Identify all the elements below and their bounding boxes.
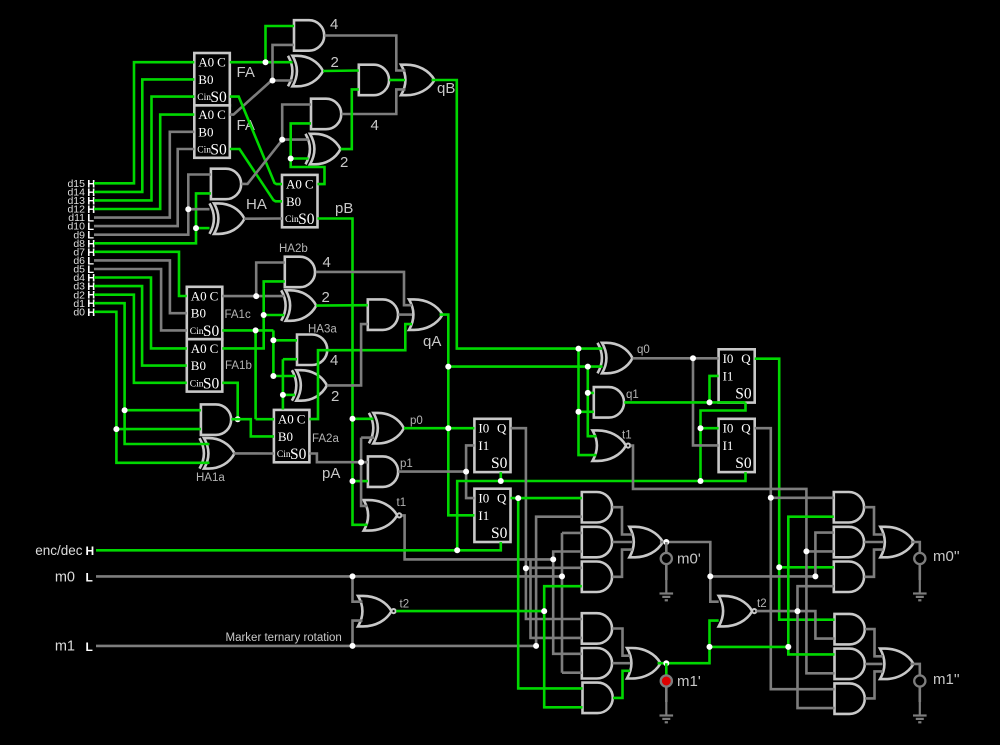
XOR gate 2 (top, qB group) xyxy=(293,56,324,87)
svg-text:I1: I1 xyxy=(478,438,489,453)
junction m0p-815 xyxy=(812,573,818,579)
wire HA3a second input vertical xyxy=(282,359,285,409)
svg-text:FA2a: FA2a xyxy=(312,433,339,445)
svg-text:Q: Q xyxy=(741,351,751,366)
OR gate m0s xyxy=(880,527,914,558)
wire qA branch down xyxy=(588,367,597,437)
NOR gate t2 (left) xyxy=(358,596,392,627)
junction m0-562 xyxy=(559,573,565,579)
wire FA1c.S0 drop to HA3a xyxy=(272,330,275,376)
wire m1p to m0s-a xyxy=(788,517,834,647)
wire m1p-b out xyxy=(612,662,630,665)
svg-text:A0: A0 xyxy=(286,177,302,192)
wire qB out long xyxy=(432,80,603,349)
junction pB.C xyxy=(288,156,294,162)
wire m0s-b out xyxy=(864,541,883,544)
wire FA1.C branch to and4top xyxy=(266,26,295,62)
wire d9 branch to HA xor xyxy=(188,208,209,211)
svg-text:S0: S0 xyxy=(203,323,220,340)
svg-text:B0: B0 xyxy=(278,429,293,444)
wire mux2.Q branch down xyxy=(518,498,582,688)
svg-text:B0: B0 xyxy=(191,306,206,321)
OR gate m1p xyxy=(627,648,661,679)
svg-text:m0': m0' xyxy=(677,551,701,568)
junction mux4.Q xyxy=(768,495,774,501)
AND gate m1s-c xyxy=(835,683,865,714)
AND gate (qB middle) xyxy=(359,65,389,96)
AND gate 4 of HA3a xyxy=(297,335,327,366)
wire pB branch to p0 xyxy=(353,417,374,420)
junction mux4.I0 xyxy=(698,425,704,431)
OR gate m0p xyxy=(629,527,663,558)
junction p1 xyxy=(463,469,469,475)
wire m1s-a out xyxy=(865,629,883,656)
svg-text:S0: S0 xyxy=(735,455,752,472)
AND gate m0p-c xyxy=(582,562,612,593)
svg-text:I1: I1 xyxy=(478,508,489,523)
AND gate m1p-b xyxy=(582,648,612,679)
wire d1 xyxy=(94,303,210,444)
wire t2 left out xyxy=(396,610,544,613)
wire FA1c.S0 branch to HA3a and xyxy=(273,339,297,342)
wire m1 xyxy=(96,645,536,648)
svg-text:A0: A0 xyxy=(198,107,214,122)
wire and4low out xyxy=(342,89,406,114)
wire FA1b.C to HA2b xyxy=(222,281,284,348)
junction FA1c.S0 a xyxy=(270,337,276,343)
XOR gate p0 xyxy=(373,413,404,444)
wire mux4.Q branch to m0s-a xyxy=(771,496,834,499)
AND gate 4 of HA2b xyxy=(285,257,315,288)
wire d9 xyxy=(94,175,211,235)
mux M3 (q upper) xyxy=(719,349,755,402)
AND gate p1 xyxy=(368,456,398,487)
junction t1-left xyxy=(550,556,556,562)
wire t1 right out xyxy=(631,446,835,674)
AND gate m0p-a xyxy=(582,492,612,523)
wire FA2a.S0 pA xyxy=(309,454,368,463)
output m0s circle xyxy=(914,553,925,564)
svg-text:2: 2 xyxy=(322,289,330,306)
svg-text:qA: qA xyxy=(423,333,441,350)
junction enc right xyxy=(698,478,704,484)
AND gate m1s-b xyxy=(835,649,865,680)
AND gate of HA1a xyxy=(201,404,231,435)
output m1s circle xyxy=(914,675,925,686)
full adder FA (lower) xyxy=(194,105,230,157)
output m0p circle xyxy=(665,542,668,553)
wire FA1c.C to HA2b xyxy=(222,295,284,298)
wire m1s-b out xyxy=(865,663,883,666)
wire p0 out to mux1 xyxy=(404,427,475,430)
svg-text:A0: A0 xyxy=(198,55,214,70)
output m1p circle xyxy=(665,663,668,675)
wire d0 branch to HA1a and xyxy=(116,428,200,431)
junction pB-p1 xyxy=(350,478,356,484)
svg-text:S0: S0 xyxy=(210,142,227,159)
wire m1p-a out xyxy=(612,629,630,656)
svg-text:Cin: Cin xyxy=(277,450,291,460)
wire d0 xyxy=(94,312,210,463)
svg-text:4: 4 xyxy=(330,16,338,33)
wire pB branch to p1 xyxy=(353,480,368,483)
wire d15 xyxy=(94,62,194,183)
wire m1 branch up xyxy=(536,517,582,646)
wire q1 branch to mux3.I1 xyxy=(710,376,719,403)
AND gate 4 (lower, qB group) xyxy=(311,99,341,130)
AND gate m1s-a xyxy=(835,614,865,645)
junction d8 xyxy=(193,225,199,231)
junction q1 xyxy=(707,399,713,405)
junction HA and xyxy=(279,137,285,143)
svg-text:q0: q0 xyxy=(637,344,650,356)
svg-text:Cin: Cin xyxy=(197,93,211,103)
svg-text:H: H xyxy=(86,544,95,558)
wire q0 out to mux3 xyxy=(633,357,719,360)
svg-text:Q: Q xyxy=(497,421,507,436)
mux M2 (p lower) xyxy=(474,489,510,542)
junction FA1c.C xyxy=(253,293,259,299)
wire d11 xyxy=(94,132,194,218)
AND gate m1p-c xyxy=(583,683,613,714)
junction HA3a xor in xyxy=(280,392,286,398)
XOR gate 2 of HA3a xyxy=(296,370,327,401)
wire mux3.Q long vertical xyxy=(755,359,835,620)
wire p1 out xyxy=(398,470,466,473)
junction FA1.C xyxy=(263,59,269,65)
wire d13 xyxy=(94,97,194,201)
wire p1 branch to mux1.I1 xyxy=(466,445,474,471)
junction m1p right xyxy=(785,644,791,650)
wire mux4.Q xyxy=(755,428,835,689)
wire t2 right branch down xyxy=(798,611,835,708)
mux M1 (p upper) xyxy=(474,419,510,472)
wire mux1.S0 stub xyxy=(499,472,502,481)
svg-text:C: C xyxy=(210,289,219,304)
wire pA branch to p0 xyxy=(361,436,374,439)
wire FA1.S0 diagonal to pB.A0 xyxy=(230,97,282,185)
wire d10 xyxy=(94,149,194,226)
svg-text:q1: q1 xyxy=(626,389,639,401)
wire m1 branch to t2 left xyxy=(353,621,363,646)
svg-text:2: 2 xyxy=(331,54,339,71)
AND gate m0s-b xyxy=(834,527,864,558)
OR gate qB xyxy=(401,65,435,96)
svg-text:A0: A0 xyxy=(191,341,207,356)
AND gate m0s-c xyxy=(834,562,864,593)
svg-text:FA: FA xyxy=(237,64,255,81)
wire m0p-a out xyxy=(612,507,632,534)
wire FA1c.C branch to HA2b and xyxy=(256,263,285,297)
AND gate (qA) xyxy=(368,299,398,330)
wire HA1a xor out to FA2a.Cin xyxy=(234,452,274,455)
ground m0s xyxy=(919,580,921,594)
full adder pB box xyxy=(282,175,318,227)
wire HA3a xor second in xyxy=(283,394,295,397)
svg-text:Cin: Cin xyxy=(197,146,211,156)
wire FA2.C diagonal xyxy=(230,81,293,115)
junction qA-right xyxy=(585,364,591,370)
wire d8 branch to HA xor xyxy=(196,227,210,230)
wire m0 xyxy=(96,575,562,578)
wire m1s-c out xyxy=(865,671,883,698)
wire pB.S0 vertical xyxy=(318,219,368,525)
AND gate m0p-b xyxy=(582,527,612,558)
wire mux1.Q branch to m0p-c xyxy=(526,566,582,569)
wire FA1c.S0 drop to FA2a.A0 xyxy=(254,330,257,419)
junction m1-t2 xyxy=(350,643,356,649)
wire m1p to ground xyxy=(665,687,668,702)
NOR gate t2 (right) xyxy=(719,596,753,627)
wire HA1a and out to FA2a.B0 xyxy=(231,419,274,436)
svg-text:t1: t1 xyxy=(622,430,632,442)
svg-text:t1: t1 xyxy=(397,497,407,509)
XOR gate of HA xyxy=(214,203,245,234)
svg-text:S0: S0 xyxy=(210,89,227,106)
svg-text:m1': m1' xyxy=(677,673,701,690)
wire HA2b and out to qA or xyxy=(316,272,412,305)
wire d4 xyxy=(94,278,187,349)
svg-text:enc/dec: enc/dec xyxy=(35,543,83,558)
wire qA branch to q1 xyxy=(588,392,594,395)
OR gate qA xyxy=(409,299,443,330)
wire m0 branch to t2 left xyxy=(353,576,363,601)
wire HA and out diagonal xyxy=(241,105,311,184)
junction m0-t2 xyxy=(350,573,356,579)
wire d5 xyxy=(94,269,187,330)
svg-text:A0: A0 xyxy=(278,412,294,427)
wire qB branch to q1 xyxy=(579,410,594,413)
wire q0 branch to mux4.I1 xyxy=(693,358,719,445)
junction t1 right xyxy=(803,548,809,554)
wire m0p or out xyxy=(660,542,719,602)
junction q0 xyxy=(690,355,696,361)
wire t1 branch to m1p-a bottom xyxy=(531,559,582,638)
svg-text:S0: S0 xyxy=(491,525,508,542)
full adder FA1c xyxy=(187,287,223,339)
junction FA1c.S0 at 255 xyxy=(253,327,259,333)
svg-text:pA: pA xyxy=(322,465,340,482)
svg-text:4: 4 xyxy=(371,117,379,134)
junction m1 xyxy=(533,643,539,649)
wire enc/dec riser xyxy=(457,472,745,550)
wire qA branch right xyxy=(448,365,602,368)
junction qB-q1 xyxy=(576,409,582,415)
wire t2 right out xyxy=(757,611,835,639)
svg-text:2: 2 xyxy=(340,154,348,171)
wire FA1b.C branch to HA2b xor xyxy=(264,314,285,317)
svg-text:B0: B0 xyxy=(198,124,213,139)
svg-text:C: C xyxy=(305,177,314,192)
full adder FA1b xyxy=(187,339,223,391)
junction pA xyxy=(358,459,364,465)
svg-text:FA1c: FA1c xyxy=(225,309,251,321)
ground m0p xyxy=(665,580,667,594)
junction qB-q0 xyxy=(576,346,582,352)
junction FA2.C xyxy=(270,78,276,84)
wire FA1c.S0 xyxy=(222,329,273,332)
svg-text:C: C xyxy=(297,412,306,427)
wire p1 branch to mux2.I0 xyxy=(466,472,474,499)
wire m1p or out xyxy=(658,621,719,664)
wire FA2.C branch to and4top xyxy=(273,45,295,81)
svg-text:C: C xyxy=(217,55,226,70)
wire enc/dec xyxy=(96,542,501,550)
junction FA1b.S0 xyxy=(235,416,241,422)
wire m0 branch at 562 xyxy=(561,533,564,673)
wire d7 xyxy=(94,252,187,296)
wire m1s to ground xyxy=(918,687,921,702)
wire mux3.Q branch to m0s-c xyxy=(779,566,834,569)
junction m1p riser xyxy=(707,644,713,650)
wire FA1.C to xor2top xyxy=(230,61,293,64)
full adder FA2a xyxy=(274,410,310,462)
wire t1 branch to m0p-b xyxy=(553,552,582,560)
junction m1p out xyxy=(663,660,669,666)
junction mux1.S0 xyxy=(498,478,504,484)
junction pB-p0 xyxy=(350,416,356,422)
wire FA2a.C up to 4-line xyxy=(309,324,412,419)
svg-text:4: 4 xyxy=(330,352,338,369)
wire m0s-c out xyxy=(864,550,883,577)
wire mux2.Q xyxy=(511,497,582,500)
mux M4 (q lower) xyxy=(719,419,755,472)
junction mux3.Q xyxy=(776,564,782,570)
svg-text:L: L xyxy=(86,640,93,654)
wire and4top out xyxy=(325,36,406,71)
wire HA3a xor out to qA and xyxy=(327,324,368,385)
XOR gate 2 (lower, qB group) xyxy=(310,134,341,165)
svg-text:I1: I1 xyxy=(723,438,734,453)
svg-text:B0: B0 xyxy=(198,72,213,87)
svg-text:Marker ternary rotation: Marker ternary rotation xyxy=(226,632,342,644)
wire HA3a and second in xyxy=(283,358,297,361)
AND gate q1 xyxy=(594,387,624,418)
AND gate m0s-a xyxy=(834,492,864,523)
wire andmid out xyxy=(389,79,405,82)
junction t2 left xyxy=(541,608,547,614)
XOR gate of HA1a xyxy=(204,438,235,469)
svg-text:Cin: Cin xyxy=(190,379,204,389)
wire t2 left branch down xyxy=(544,611,582,707)
XOR gate 2 of HA2b xyxy=(286,290,317,321)
svg-text:Q: Q xyxy=(497,491,507,506)
wire mux1.Q xyxy=(511,428,582,619)
svg-text:S0: S0 xyxy=(491,455,508,472)
wire m0s or out xyxy=(911,542,920,553)
svg-text:HA3a: HA3a xyxy=(308,324,337,336)
wire m0s to ground xyxy=(918,564,921,580)
wire HA2b xor out to qA and xyxy=(316,304,368,307)
wire qA out vertical xyxy=(440,315,475,516)
wire m0s-a out xyxy=(864,507,883,534)
junction d0 xyxy=(113,426,119,432)
svg-text:B0: B0 xyxy=(286,194,301,209)
wire m0p to ground xyxy=(665,564,668,580)
wire pB.C branch to xor2low xyxy=(291,157,309,160)
svg-text:t2: t2 xyxy=(400,599,410,611)
svg-text:S0: S0 xyxy=(203,375,220,392)
svg-text:FA1b: FA1b xyxy=(225,360,252,372)
svg-text:S0: S0 xyxy=(290,446,307,463)
wire t1 left out xyxy=(402,515,553,559)
svg-text:B0: B0 xyxy=(191,358,206,373)
wire m1s or out xyxy=(911,664,920,676)
svg-text:I0: I0 xyxy=(723,351,734,366)
svg-text:m0'': m0'' xyxy=(933,548,960,565)
svg-text:S0: S0 xyxy=(735,386,752,403)
junction d1 xyxy=(122,407,128,413)
junction qA-q1 xyxy=(585,390,591,396)
wire mux3.S0 route xyxy=(701,403,746,481)
svg-text:2: 2 xyxy=(331,388,339,405)
junction d9 xyxy=(185,206,191,212)
XOR gate q0 xyxy=(602,343,633,374)
svg-text:qB: qB xyxy=(437,80,455,97)
svg-text:p0: p0 xyxy=(410,415,423,427)
svg-text:Q: Q xyxy=(741,421,751,436)
wire t1 branch to m1p-b top xyxy=(553,559,582,653)
AND gate m1p-a xyxy=(582,613,612,644)
wire m0p-c out xyxy=(612,550,632,577)
svg-text:A0: A0 xyxy=(191,289,207,304)
NOR gate t1 (right) xyxy=(593,430,627,461)
junction t2 right xyxy=(795,608,801,614)
wire HA and branch to xor2low xyxy=(282,138,308,141)
wire FA1c.S0 branch to HA3a xor xyxy=(273,375,295,378)
svg-text:Cin: Cin xyxy=(285,215,299,225)
svg-text:I0: I0 xyxy=(478,491,489,506)
wire m0p-b out xyxy=(612,541,632,544)
junction mux2.Q xyxy=(515,495,521,501)
svg-text:m1'': m1'' xyxy=(933,671,960,688)
svg-text:HA: HA xyxy=(246,196,267,213)
full adder FA (upper) xyxy=(194,53,230,105)
wire d3 xyxy=(94,286,187,366)
wire m1p-c out xyxy=(613,671,630,698)
wire m1p long right xyxy=(710,646,789,649)
svg-text:d0: d0 xyxy=(73,306,85,318)
svg-text:I1: I1 xyxy=(723,368,734,383)
ground m1s xyxy=(919,702,921,716)
junction p0-qA xyxy=(445,425,451,431)
wire d1 branch to HA1a and xyxy=(125,409,201,412)
wire pB.C feedback xyxy=(291,123,325,184)
wire t2 left branch up xyxy=(544,586,582,611)
svg-text:t2: t2 xyxy=(757,598,767,610)
OR gate m1s xyxy=(880,649,914,680)
svg-text:pB: pB xyxy=(335,200,353,217)
wire d6 xyxy=(94,260,187,313)
wire d14 xyxy=(94,79,194,191)
wire m1p to m1s-b xyxy=(788,647,834,655)
junction FA1b.C xyxy=(261,312,267,318)
wire t2 right branch up xyxy=(798,586,834,611)
svg-text:L: L xyxy=(86,571,93,585)
wire qA and out xyxy=(398,313,412,316)
wire xor2low out to andmid xyxy=(341,89,359,149)
svg-text:HA2b: HA2b xyxy=(279,243,308,255)
wire xor2top out xyxy=(323,69,359,72)
svg-text:I0: I0 xyxy=(723,421,734,436)
junction FA1c.S0 b xyxy=(270,373,276,379)
wire pA vertical xyxy=(361,438,367,506)
wire FA2a.A0 stub xyxy=(256,418,274,421)
junction qA xyxy=(445,364,451,370)
svg-text:C: C xyxy=(210,341,219,356)
junction enc riser xyxy=(454,547,460,553)
wire d8 xyxy=(94,193,211,243)
